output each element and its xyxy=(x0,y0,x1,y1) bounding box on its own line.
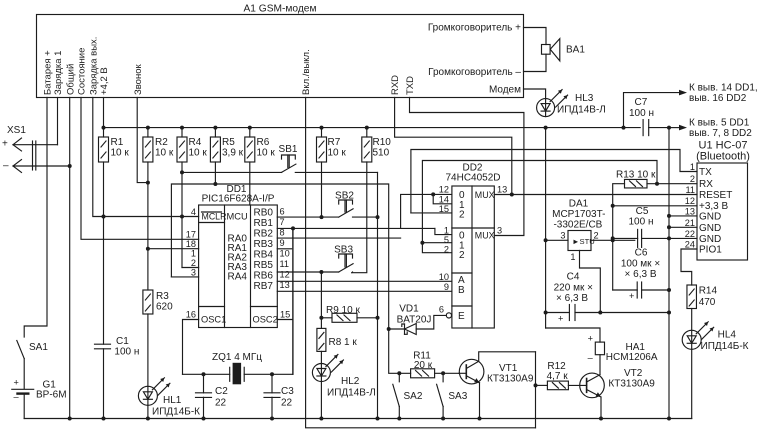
svg-text:RB2: RB2 xyxy=(254,229,274,240)
svg-text:1: 1 xyxy=(191,249,196,259)
svg-text:13: 13 xyxy=(685,207,695,217)
wire VT1 collector xyxy=(479,352,536,362)
junction RB5 R9 branch xyxy=(319,270,323,274)
wire R5 net to VD1 xyxy=(215,184,388,329)
svg-text:Общий: Общий xyxy=(65,64,76,95)
wire Звонок to R2 xyxy=(137,98,148,183)
svg-text:RB5: RB5 xyxy=(254,260,274,271)
junction R13 leg xyxy=(611,204,615,208)
wire RB1 to DD2 pins 12 14 xyxy=(277,227,435,229)
svg-text:КТ3130А9: КТ3130А9 xyxy=(487,374,534,385)
junction RXD RESET xyxy=(510,193,514,197)
wire RB0 net xyxy=(277,216,338,218)
svg-text:10 к: 10 к xyxy=(257,148,276,159)
wire Модем to HL3 xyxy=(524,89,546,99)
wire XS1 minus to Общий xyxy=(13,165,70,167)
wire R5net to R11 xyxy=(389,329,411,373)
junction C3 bus xyxy=(270,417,274,421)
svg-text:6: 6 xyxy=(439,305,444,315)
wire 3.3V to U1 pin 12 xyxy=(613,205,697,207)
svg-text:15: 15 xyxy=(439,204,449,214)
buzzer HA1 xyxy=(595,342,604,355)
LED HL3 xyxy=(537,99,555,117)
wire 3.3V vertical xyxy=(612,206,614,290)
svg-text:–: – xyxy=(14,392,20,402)
wire GND vertical xyxy=(668,128,670,419)
wire RB5 net xyxy=(277,271,338,273)
wire C4 line xyxy=(546,312,570,314)
junction pin5 xyxy=(420,241,424,245)
svg-text:22: 22 xyxy=(215,398,227,409)
svg-text:12: 12 xyxy=(280,270,290,280)
wire speaker - xyxy=(524,54,547,71)
junction R12 left xyxy=(534,383,538,387)
svg-text:12: 12 xyxy=(685,196,695,206)
svg-text:RB0: RB0 xyxy=(254,208,274,219)
svg-text:2: 2 xyxy=(690,174,695,184)
LED HL4 xyxy=(682,330,701,349)
svg-text:Громкоговоритель +: Громкоговоритель + xyxy=(428,23,521,34)
junction SB net R9 xyxy=(376,316,380,320)
svg-text:3: 3 xyxy=(191,268,196,278)
junction R13 RX xyxy=(655,182,659,186)
svg-text:+3,3 В: +3,3 В xyxy=(699,201,729,212)
wire R12 to VT2 base xyxy=(568,384,586,386)
junction C5 left xyxy=(611,236,615,240)
svg-text:1: 1 xyxy=(570,252,575,262)
junction rail R4 top xyxy=(180,126,184,130)
svg-text:2: 2 xyxy=(459,210,465,221)
svg-text:+4,2 В: +4,2 В xyxy=(99,67,110,95)
wire RB1/OSC2 vertical xyxy=(292,228,294,374)
svg-text:MCLR: MCLR xyxy=(202,212,227,222)
svg-text:2: 2 xyxy=(191,258,196,268)
svg-text:100 н: 100 н xyxy=(629,108,654,119)
svg-text:–: – xyxy=(3,161,9,172)
svg-text:OSC2: OSC2 xyxy=(253,315,278,325)
svg-text:24: 24 xyxy=(685,240,695,250)
junction R1 bottom xyxy=(102,215,106,219)
wire XS1 plus to Зарядка 1 xyxy=(13,144,58,146)
svg-text:R8 1 к: R8 1 к xyxy=(329,337,358,348)
svg-text:10: 10 xyxy=(439,272,449,282)
junction VT2 bus xyxy=(599,417,603,421)
svg-text:ВР-6М: ВР-6М xyxy=(36,389,67,400)
wire DD2 pin5 pin2 xyxy=(422,242,452,244)
wire U1 PIO1 to R14 xyxy=(681,249,697,285)
wire OSC2 to crystal xyxy=(277,319,293,321)
wire RB7 to DD2 pin 9 xyxy=(277,290,452,292)
wire HL4 to bus xyxy=(691,349,693,418)
svg-text:C1: C1 xyxy=(116,336,129,347)
switch SA2 xyxy=(398,373,400,382)
LED HL2 xyxy=(312,364,330,382)
junction R9 left R8 top xyxy=(319,316,323,320)
wire DA1 output xyxy=(591,239,635,241)
svg-text:ZQ1 4 МГц: ZQ1 4 МГц xyxy=(212,352,262,363)
wire VD1 to R5 net xyxy=(389,328,405,330)
svg-text:100 мк ×: 100 мк × xyxy=(621,259,660,270)
svg-text:7: 7 xyxy=(280,217,285,227)
wire C5 line left xyxy=(613,237,638,239)
transistor VT2 xyxy=(580,373,605,398)
svg-text:PIC16F628A-I/P: PIC16F628A-I/P xyxy=(202,194,275,205)
svg-text:HCM1206A: HCM1206A xyxy=(606,352,658,363)
junction SA3 bus xyxy=(441,417,445,421)
svg-text:4,7 к: 4,7 к xyxy=(547,371,569,382)
svg-text:GND: GND xyxy=(699,212,721,223)
svg-text:R3: R3 xyxy=(156,291,169,302)
svg-text:SA1: SA1 xyxy=(29,342,48,353)
svg-text:HL1: HL1 xyxy=(163,395,182,406)
svg-text:C2: C2 xyxy=(215,386,228,397)
svg-text:XS1: XS1 xyxy=(7,125,26,136)
svg-text:DA1: DA1 xyxy=(569,199,589,210)
resistor R2 xyxy=(147,128,149,137)
svg-text:выв. 7, 8 DD2: выв. 7, 8 DD2 xyxy=(689,128,752,139)
svg-text:74HC4052D: 74HC4052D xyxy=(445,173,500,184)
svg-text:BA1: BA1 xyxy=(566,45,585,56)
junction rail HL3 xyxy=(544,126,548,130)
svg-text:HL3: HL3 xyxy=(575,93,594,104)
wire R12 node vertical xyxy=(535,352,537,428)
junction rail R10 top xyxy=(365,126,369,130)
svg-text:RA4: RA4 xyxy=(228,272,248,283)
junction C3 top xyxy=(270,372,274,376)
svg-text:RESET: RESET xyxy=(699,190,732,201)
junction rail R2 top xyxy=(146,126,150,130)
junction R5 bottom xyxy=(213,182,217,186)
svg-text:4: 4 xyxy=(191,207,196,217)
svg-text:9: 9 xyxy=(444,282,449,292)
svg-text:+: + xyxy=(558,314,563,324)
svg-text:Зарядка вых.: Зарядка вых. xyxy=(88,37,99,95)
wire SB2 right xyxy=(353,216,378,218)
svg-text:2: 2 xyxy=(459,250,465,261)
battery G1 xyxy=(12,388,34,390)
svg-text:SB1: SB1 xyxy=(279,144,298,155)
svg-text:VD1: VD1 xyxy=(399,304,419,315)
transistor VT1 xyxy=(459,359,484,384)
svg-text:ИПД14В-Л: ИПД14В-Л xyxy=(557,105,606,116)
svg-text:SA3: SA3 xyxy=(448,391,467,402)
wire RB5 branch to R9 R8 xyxy=(320,272,322,328)
wire VT1 emitter xyxy=(479,383,481,419)
junction R4 MCLR line xyxy=(180,215,184,219)
wire SB1 left xyxy=(182,171,282,173)
junction rail R7 top xyxy=(320,126,324,130)
wire +4,2В down xyxy=(103,98,105,128)
wire R5 net to RA4 xyxy=(171,184,215,277)
wire U1 RX line xyxy=(422,161,657,243)
wire R2 to RA1 and R3 xyxy=(147,183,149,249)
resistor R14 xyxy=(687,285,697,309)
junction RA1 tap xyxy=(146,247,150,251)
svg-text:8: 8 xyxy=(280,228,285,238)
svg-text:C6: C6 xyxy=(635,248,648,259)
LED HL1 xyxy=(138,386,157,405)
svg-text:К выв. 5 DD1: К выв. 5 DD1 xyxy=(689,118,750,129)
svg-text:–: – xyxy=(588,353,594,363)
wire Вкл./выкл. down xyxy=(306,98,536,428)
svg-text:RB6: RB6 xyxy=(254,271,274,282)
svg-text:1: 1 xyxy=(690,162,695,172)
wire R10 to SB3 xyxy=(352,162,367,273)
junction SA3 top xyxy=(441,371,445,375)
junction SB net bus xyxy=(376,417,380,421)
junction rail R1 top xyxy=(102,126,106,130)
wire OSC1 to crystal xyxy=(183,320,199,375)
junction SA2 bus xyxy=(397,417,401,421)
wire R13 left xyxy=(613,184,625,206)
svg-text:Состояние: Состояние xyxy=(77,48,88,95)
svg-text:C3: C3 xyxy=(281,386,294,397)
svg-text:5: 5 xyxy=(444,235,449,245)
junction HL1 bus xyxy=(146,417,150,421)
junction C2 top xyxy=(202,372,206,376)
wire Зарядка вых. to MCLR xyxy=(93,98,199,217)
svg-text:B: B xyxy=(458,285,465,296)
wire R6 down xyxy=(249,162,251,205)
junction C2 bus xyxy=(202,417,206,421)
capacitor C2 xyxy=(203,374,205,393)
wire Батарея+ down xyxy=(24,98,47,338)
wire R4 to MCLR and RA3 xyxy=(181,162,183,268)
svg-text:MUX: MUX xyxy=(475,190,495,200)
svg-text:11: 11 xyxy=(685,185,695,195)
svg-text:22: 22 xyxy=(281,398,293,409)
svg-text:× 6,3 В: × 6,3 В xyxy=(556,293,588,304)
svg-text:+: + xyxy=(14,378,19,388)
svg-text:510: 510 xyxy=(373,148,390,159)
svg-text:3: 3 xyxy=(560,231,565,241)
wire SB1 right xyxy=(295,171,377,173)
svg-text:16: 16 xyxy=(186,310,196,320)
svg-text:TXD: TXD xyxy=(405,76,416,95)
svg-text:Батарея +: Батарея + xyxy=(43,50,54,95)
svg-text:14: 14 xyxy=(439,195,449,205)
junction RB1 xyxy=(291,226,295,230)
svg-text:18: 18 xyxy=(186,239,196,249)
wire TXD to DD2 pin 3 xyxy=(410,98,524,236)
junction XS1 minus xyxy=(68,164,72,168)
svg-text:R1: R1 xyxy=(111,137,124,148)
wire R11 right to VT1 base xyxy=(435,372,459,374)
junction GND bus xyxy=(667,417,671,421)
svg-text:PIO1: PIO1 xyxy=(699,245,722,256)
svg-text:HL4: HL4 xyxy=(718,330,737,341)
svg-text:+: + xyxy=(629,291,634,301)
svg-text:R13 10 к: R13 10 к xyxy=(616,170,656,181)
junction SB2 right xyxy=(376,215,380,219)
svg-text:HL2: HL2 xyxy=(341,376,360,387)
GSM modem A1 box xyxy=(37,15,524,98)
svg-text:× 6,3 В: × 6,3 В xyxy=(625,269,657,280)
junction VD1 anode xyxy=(387,327,391,331)
svg-text:15: 15 xyxy=(280,310,290,320)
resistor R8 xyxy=(317,328,326,351)
svg-text:RB3: RB3 xyxy=(254,239,274,250)
junction DA1 out 3.3V xyxy=(611,238,615,242)
svg-text:RX: RX xyxy=(699,179,713,190)
junction C5 gnd xyxy=(667,236,671,240)
svg-text:КТ3130А9: КТ3130А9 xyxy=(608,378,655,389)
speaker BA1 xyxy=(542,45,551,55)
switch SA1 xyxy=(17,341,24,359)
svg-text:100 н: 100 н xyxy=(114,347,139,358)
resistor R3 xyxy=(143,290,153,314)
wire U1 GND pins xyxy=(669,215,697,217)
svg-text:R2: R2 xyxy=(155,137,168,148)
wire U1 TX line xyxy=(411,212,452,214)
svg-text:470: 470 xyxy=(699,297,716,308)
svg-text:К выв. 14 DD1,: К выв. 14 DD1, xyxy=(689,83,758,94)
svg-text:RXD: RXD xyxy=(390,75,401,95)
junction R2 bottom xyxy=(146,181,150,185)
wire ground bus xyxy=(24,418,692,420)
wire C5 line right / pin 22 GND xyxy=(642,237,697,239)
svg-text:3,9 к: 3,9 к xyxy=(222,148,244,159)
junction R7 RB0 xyxy=(320,215,324,219)
svg-text:22: 22 xyxy=(685,229,695,239)
svg-text:10 к: 10 к xyxy=(111,148,130,159)
wire Общий down xyxy=(69,98,71,419)
svg-text:R9 10 к: R9 10 к xyxy=(326,305,360,316)
inverter circle E xyxy=(446,313,451,318)
junction SA2 top xyxy=(397,371,401,375)
svg-text:RB4: RB4 xyxy=(254,250,274,261)
svg-text:10 к: 10 к xyxy=(189,148,208,159)
junction DA1 in xyxy=(544,238,548,242)
wire Состояние to RA0 xyxy=(81,98,199,240)
svg-text:R14: R14 xyxy=(699,286,718,297)
svg-text:►STU: ►STU xyxy=(572,237,595,246)
svg-text:6: 6 xyxy=(280,207,285,217)
svg-text:R10: R10 xyxy=(373,137,392,148)
wire R13 right to U1 RX xyxy=(647,183,697,185)
junction HL2 bus xyxy=(319,417,323,421)
svg-text:ИПД14В-Л: ИПД14В-Л xyxy=(327,388,376,399)
svg-text:GND: GND xyxy=(699,223,721,234)
svg-text:GND: GND xyxy=(699,234,721,245)
wire RB6 to DD2 pin 10 xyxy=(277,280,452,282)
svg-text:TX: TX xyxy=(699,167,712,178)
capacitor C1 xyxy=(103,217,105,345)
switch SA3 xyxy=(442,373,444,382)
junction C1 bus xyxy=(102,417,106,421)
svg-text:13: 13 xyxy=(497,185,507,195)
svg-text:SA2: SA2 xyxy=(404,391,423,402)
wire HL3 net vertical xyxy=(545,128,547,328)
svg-text:100 н: 100 н xyxy=(629,217,654,228)
svg-text:OSC1: OSC1 xyxy=(201,315,226,325)
svg-text:10: 10 xyxy=(280,249,290,259)
capacitor C7 xyxy=(642,120,644,136)
svg-text:21: 21 xyxy=(685,218,695,228)
junction rail R6 top xyxy=(248,126,252,130)
svg-text:C5: C5 xyxy=(636,206,649,217)
resistor R5 xyxy=(214,128,216,137)
svg-text:RB7: RB7 xyxy=(254,281,274,292)
wire RXD to DD2 pin 13 xyxy=(395,98,512,195)
resistor R1 xyxy=(103,128,105,137)
wire C6 line xyxy=(613,289,638,291)
svg-text:ИПД14Б-К: ИПД14Б-К xyxy=(152,407,200,418)
svg-text:Модем: Модем xyxy=(489,85,521,96)
svg-text:C4: C4 xyxy=(567,272,580,283)
svg-text:10 к: 10 к xyxy=(328,148,347,159)
svg-text:Звонок: Звонок xyxy=(133,64,144,95)
wire DA1 gnd xyxy=(580,251,601,313)
resistor R10 xyxy=(366,128,368,137)
wire RB1 branch down xyxy=(292,228,294,374)
svg-text:10 к: 10 к xyxy=(155,148,174,159)
junction Общий bus xyxy=(68,417,72,421)
svg-text:+: + xyxy=(2,139,8,150)
svg-text:+: + xyxy=(588,333,593,343)
svg-text:1: 1 xyxy=(444,226,449,236)
wire VT2 emitter xyxy=(600,397,602,419)
wire E to VD1 xyxy=(416,315,446,329)
svg-text:(Bluetooth): (Bluetooth) xyxy=(696,151,750,163)
svg-text:MCU: MCU xyxy=(227,212,248,222)
svg-text:ИПД14Б-К: ИПД14Б-К xyxy=(701,341,749,352)
wire DA1 input xyxy=(546,239,568,241)
svg-text:выв. 16 DD2: выв. 16 DD2 xyxy=(689,93,747,104)
resistor R7 xyxy=(321,128,323,137)
svg-text:R5: R5 xyxy=(222,137,235,148)
wire SB net vertical xyxy=(377,172,379,418)
svg-text:R7: R7 xyxy=(328,137,341,148)
wire speaker + xyxy=(524,28,547,45)
svg-text:R6: R6 xyxy=(257,137,270,148)
svg-text:R4: R4 xyxy=(189,137,202,148)
junction DD2 pin12 pin14 xyxy=(431,192,435,196)
svg-text:17: 17 xyxy=(186,230,196,240)
svg-text:VT1: VT1 xyxy=(499,363,518,374)
wire to pin14 DD1 arrow xyxy=(624,93,682,128)
wire Vdd rail xyxy=(104,127,641,129)
svg-text:RB1: RB1 xyxy=(254,218,274,229)
wire crystal line xyxy=(183,373,230,375)
wire C7 to GND arrow xyxy=(649,127,669,129)
junction C4 left xyxy=(544,311,548,315)
svg-text:9: 9 xyxy=(280,238,285,248)
junction R4 SB1 line xyxy=(180,170,184,174)
wire RB3 stub xyxy=(277,248,291,250)
svg-text:C7: C7 xyxy=(635,97,648,108)
junction DA1 gnd xyxy=(598,311,602,315)
svg-text:12: 12 xyxy=(439,185,449,195)
svg-text:620: 620 xyxy=(156,302,173,313)
junction C4 gnd xyxy=(667,311,671,315)
svg-text:Вкл./выкл.: Вкл./выкл. xyxy=(301,49,312,95)
resistor R4 xyxy=(181,128,183,137)
wire RB2 to DD2 pin 1 xyxy=(277,237,400,239)
svg-text:MCP1703T-: MCP1703T- xyxy=(552,209,605,220)
svg-text:-3302E/СВ: -3302E/СВ xyxy=(553,220,602,231)
wire DD2 pin13 to U1 RESET xyxy=(494,194,697,196)
svg-text:3: 3 xyxy=(497,226,502,236)
junction rail R5 top xyxy=(213,126,217,130)
svg-text:A1 GSM-модем: A1 GSM-модем xyxy=(244,4,317,15)
resistor R6 xyxy=(249,128,251,137)
svg-text:E: E xyxy=(458,311,465,322)
wire G1 to bus xyxy=(23,395,25,419)
wire VT2 collector to HA1 xyxy=(599,355,601,375)
svg-text:Громкоговоритель –: Громкоговоритель – xyxy=(428,67,521,78)
svg-text:2: 2 xyxy=(594,231,599,241)
